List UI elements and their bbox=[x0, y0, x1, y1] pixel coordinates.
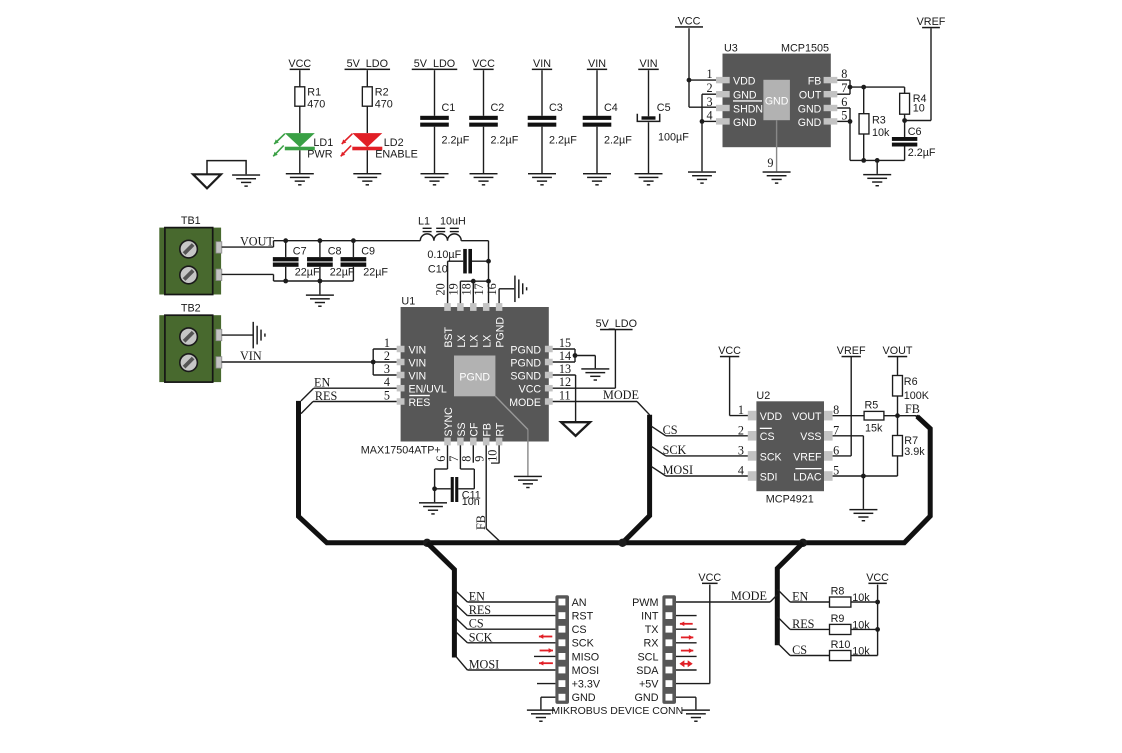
svg-text:10uH: 10uH bbox=[440, 215, 466, 227]
svg-text:11: 11 bbox=[559, 389, 571, 403]
svg-text:CF: CF bbox=[469, 422, 481, 437]
svg-text:PWR: PWR bbox=[307, 148, 332, 160]
svg-text:1: 1 bbox=[738, 403, 744, 417]
svg-text:GND: GND bbox=[572, 692, 596, 704]
svg-text:TX: TX bbox=[645, 624, 659, 636]
svg-text:4: 4 bbox=[707, 108, 713, 122]
svg-text:SCK: SCK bbox=[572, 638, 595, 650]
svg-text:VREF: VREF bbox=[917, 16, 946, 28]
svg-text:TB2: TB2 bbox=[181, 303, 201, 315]
svg-text:6: 6 bbox=[841, 95, 847, 109]
svg-text:R3: R3 bbox=[872, 115, 886, 127]
svg-text:VOUT: VOUT bbox=[792, 411, 822, 423]
svg-text:R2: R2 bbox=[375, 87, 389, 99]
svg-text:C3: C3 bbox=[549, 102, 563, 114]
svg-text:VIN: VIN bbox=[409, 357, 427, 369]
svg-text:SDI: SDI bbox=[760, 471, 778, 483]
svg-text:VCC: VCC bbox=[678, 16, 701, 28]
svg-text:22µF: 22µF bbox=[330, 267, 355, 279]
svg-text:VIN: VIN bbox=[533, 58, 551, 70]
svg-text:MCP1505: MCP1505 bbox=[781, 43, 829, 55]
svg-text:C1: C1 bbox=[442, 102, 456, 114]
svg-text:RX: RX bbox=[644, 638, 659, 650]
svg-text:15k: 15k bbox=[865, 423, 883, 435]
svg-text:LD2: LD2 bbox=[384, 137, 404, 149]
svg-text:GND: GND bbox=[798, 117, 822, 129]
svg-text:13: 13 bbox=[559, 362, 571, 376]
svg-text:5: 5 bbox=[384, 389, 390, 403]
svg-text:LD1: LD1 bbox=[313, 137, 333, 149]
svg-text:CS: CS bbox=[760, 431, 775, 443]
svg-text:VCC: VCC bbox=[718, 345, 741, 357]
svg-text:FB: FB bbox=[808, 76, 822, 88]
svg-text:10k: 10k bbox=[872, 127, 890, 139]
svg-text:U2: U2 bbox=[756, 390, 770, 402]
svg-text:C5: C5 bbox=[657, 102, 671, 114]
svg-text:MISO: MISO bbox=[572, 651, 600, 663]
svg-text:R1: R1 bbox=[307, 87, 321, 99]
svg-text:10k: 10k bbox=[852, 592, 870, 604]
svg-text:LDAC: LDAC bbox=[793, 471, 822, 483]
svg-text:C9: C9 bbox=[361, 245, 375, 257]
svg-text:VSS: VSS bbox=[800, 431, 821, 443]
svg-text:SHDN: SHDN bbox=[733, 103, 763, 115]
svg-text:3: 3 bbox=[707, 95, 713, 109]
svg-text:C6: C6 bbox=[908, 126, 922, 138]
svg-text:9: 9 bbox=[767, 156, 773, 170]
svg-text:7: 7 bbox=[447, 456, 461, 462]
svg-text:7: 7 bbox=[841, 81, 847, 95]
svg-text:1: 1 bbox=[384, 336, 390, 350]
svg-text:U1: U1 bbox=[401, 295, 415, 307]
svg-text:RES: RES bbox=[315, 389, 338, 403]
svg-text:U3: U3 bbox=[724, 43, 738, 55]
svg-text:VREF: VREF bbox=[793, 451, 822, 463]
svg-text:2.2µF: 2.2µF bbox=[491, 135, 519, 147]
svg-text:VCC: VCC bbox=[288, 58, 311, 70]
svg-text:C7: C7 bbox=[293, 245, 307, 257]
svg-text:VDD: VDD bbox=[760, 411, 783, 423]
svg-text:OUT: OUT bbox=[799, 90, 822, 102]
svg-text:15: 15 bbox=[559, 336, 571, 350]
svg-text:RST: RST bbox=[572, 611, 594, 623]
svg-text:VOUT: VOUT bbox=[240, 235, 274, 249]
svg-text:10k: 10k bbox=[852, 619, 870, 631]
svg-text:5V_LDO: 5V_LDO bbox=[414, 58, 455, 70]
svg-text:MODE: MODE bbox=[603, 388, 639, 402]
svg-text:CS: CS bbox=[572, 624, 587, 636]
svg-text:0.10µF: 0.10µF bbox=[427, 249, 461, 261]
svg-text:6: 6 bbox=[434, 456, 448, 462]
svg-text:10: 10 bbox=[913, 103, 925, 115]
svg-text:1: 1 bbox=[707, 67, 713, 81]
svg-text:RES: RES bbox=[792, 617, 815, 631]
svg-text:VCC: VCC bbox=[866, 572, 889, 584]
svg-text:AN: AN bbox=[572, 597, 587, 609]
svg-text:RES: RES bbox=[409, 397, 431, 409]
svg-text:VCC: VCC bbox=[472, 58, 495, 70]
svg-text:VIN: VIN bbox=[409, 344, 427, 356]
svg-text:VIN: VIN bbox=[409, 370, 427, 382]
svg-text:PGND: PGND bbox=[510, 357, 541, 369]
svg-text:VDD: VDD bbox=[733, 76, 756, 88]
svg-text:TB1: TB1 bbox=[181, 215, 201, 227]
svg-text:5: 5 bbox=[841, 108, 847, 122]
svg-text:470: 470 bbox=[375, 99, 393, 111]
svg-text:LX: LX bbox=[469, 335, 481, 348]
svg-text:R10: R10 bbox=[831, 639, 851, 651]
svg-text:EN/UVL: EN/UVL bbox=[409, 384, 447, 396]
svg-text:3: 3 bbox=[384, 362, 390, 376]
svg-text:FB: FB bbox=[482, 423, 494, 437]
svg-text:MODE: MODE bbox=[509, 397, 541, 409]
svg-text:SCL: SCL bbox=[637, 651, 658, 663]
svg-text:CS: CS bbox=[469, 617, 484, 631]
svg-text:EN: EN bbox=[792, 590, 808, 604]
svg-text:PGND: PGND bbox=[495, 317, 507, 348]
svg-text:18: 18 bbox=[459, 283, 473, 295]
svg-text:BST: BST bbox=[443, 326, 455, 347]
svg-text:PGND: PGND bbox=[510, 344, 541, 356]
svg-text:2.2µF: 2.2µF bbox=[604, 135, 632, 147]
svg-text:10k: 10k bbox=[852, 646, 870, 658]
svg-text:ENABLE: ENABLE bbox=[375, 148, 418, 160]
svg-text:10n: 10n bbox=[462, 496, 480, 508]
svg-text:2: 2 bbox=[384, 349, 390, 363]
svg-text:C10: C10 bbox=[428, 264, 448, 276]
svg-text:16: 16 bbox=[485, 283, 499, 295]
svg-text:20: 20 bbox=[434, 283, 448, 295]
svg-text:100K: 100K bbox=[904, 390, 930, 402]
svg-text:GND: GND bbox=[733, 90, 757, 102]
svg-text:C4: C4 bbox=[604, 102, 618, 114]
svg-text:LX: LX bbox=[482, 335, 494, 348]
svg-text:12: 12 bbox=[559, 375, 571, 389]
svg-text:MAX17504ATP+: MAX17504ATP+ bbox=[361, 445, 441, 457]
svg-text:GND: GND bbox=[765, 96, 789, 108]
svg-text:EN: EN bbox=[314, 375, 330, 389]
svg-text:22µF: 22µF bbox=[295, 267, 320, 279]
svg-text:2.2µF: 2.2µF bbox=[549, 135, 577, 147]
svg-text:VREF: VREF bbox=[837, 345, 866, 357]
svg-text:FB: FB bbox=[474, 515, 488, 530]
svg-text:SCK: SCK bbox=[760, 451, 782, 463]
svg-text:SGND: SGND bbox=[510, 370, 541, 382]
svg-text:VCC: VCC bbox=[698, 572, 721, 584]
svg-text:VIN: VIN bbox=[240, 349, 262, 363]
svg-text:PWM: PWM bbox=[632, 597, 658, 609]
svg-text:MOSI: MOSI bbox=[572, 665, 600, 677]
svg-text:VCC: VCC bbox=[519, 384, 542, 396]
svg-text:R8: R8 bbox=[831, 586, 845, 598]
svg-text:C2: C2 bbox=[491, 102, 505, 114]
svg-text:SDA: SDA bbox=[636, 665, 659, 677]
svg-text:VIN: VIN bbox=[640, 58, 658, 70]
svg-text:9: 9 bbox=[473, 456, 487, 462]
svg-text:CS: CS bbox=[663, 423, 678, 437]
svg-text:RT: RT bbox=[495, 422, 507, 436]
svg-text:GND: GND bbox=[733, 117, 757, 129]
svg-text:10: 10 bbox=[486, 450, 500, 462]
svg-text:EN: EN bbox=[469, 590, 485, 604]
svg-text:SCK: SCK bbox=[469, 630, 493, 644]
svg-text:FB: FB bbox=[905, 402, 920, 416]
svg-text:+3.3V: +3.3V bbox=[572, 679, 601, 691]
svg-text:3.9k: 3.9k bbox=[904, 446, 925, 458]
svg-text:PGND: PGND bbox=[459, 372, 490, 384]
svg-text:MCP4921: MCP4921 bbox=[766, 494, 814, 506]
svg-text:14: 14 bbox=[559, 349, 571, 363]
svg-text:22µF: 22µF bbox=[363, 267, 388, 279]
svg-text:17: 17 bbox=[472, 283, 486, 295]
svg-text:SS: SS bbox=[456, 422, 468, 436]
svg-text:2.2µF: 2.2µF bbox=[908, 147, 936, 159]
svg-text:VIN: VIN bbox=[588, 58, 606, 70]
svg-text:R5: R5 bbox=[865, 400, 879, 412]
svg-text:SCK: SCK bbox=[663, 443, 687, 457]
svg-text:19: 19 bbox=[446, 283, 460, 295]
svg-text:L1: L1 bbox=[418, 215, 430, 227]
svg-text:SYNC: SYNC bbox=[443, 407, 455, 437]
svg-text:LX: LX bbox=[456, 335, 468, 348]
svg-text:RES: RES bbox=[469, 603, 492, 617]
svg-text:MOSI: MOSI bbox=[663, 463, 693, 477]
svg-text:470: 470 bbox=[307, 99, 325, 111]
svg-text:5V_LDO: 5V_LDO bbox=[596, 318, 637, 330]
svg-text:GND: GND bbox=[798, 103, 822, 115]
svg-text:+5V: +5V bbox=[639, 679, 659, 691]
svg-text:MIKROBUS DEVICE CONN: MIKROBUS DEVICE CONN bbox=[551, 705, 683, 717]
svg-text:R9: R9 bbox=[831, 613, 845, 625]
svg-text:4: 4 bbox=[384, 375, 390, 389]
svg-text:VOUT: VOUT bbox=[883, 345, 913, 357]
svg-text:2.2µF: 2.2µF bbox=[442, 135, 470, 147]
svg-text:GND: GND bbox=[635, 692, 659, 704]
svg-text:CS: CS bbox=[792, 643, 807, 657]
svg-text:2: 2 bbox=[707, 81, 713, 95]
svg-text:MOSI: MOSI bbox=[469, 658, 499, 672]
svg-text:INT: INT bbox=[641, 611, 659, 623]
svg-text:5V_LDO: 5V_LDO bbox=[347, 58, 388, 70]
svg-text:100µF: 100µF bbox=[658, 132, 689, 144]
svg-text:MODE: MODE bbox=[731, 589, 767, 603]
svg-text:8: 8 bbox=[841, 67, 847, 81]
svg-text:C8: C8 bbox=[328, 245, 342, 257]
svg-text:R6: R6 bbox=[904, 376, 918, 388]
svg-text:8: 8 bbox=[460, 456, 474, 462]
